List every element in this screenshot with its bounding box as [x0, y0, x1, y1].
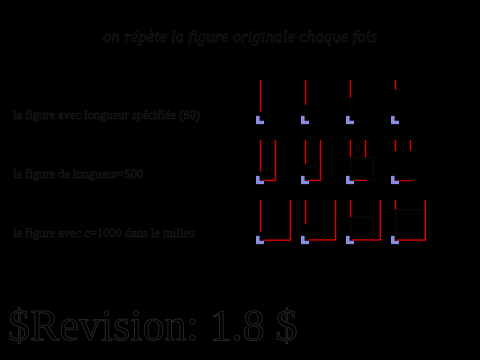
- turtle row2 col1: [256, 176, 264, 184]
- row2 ghost square col4: [396, 150, 426, 180]
- row3 col4 left line: [395, 200, 397, 209]
- row2 col2 left line: [305, 140, 307, 164]
- blue turtles: L-shaped icons (square missing its top-right quadrant): [256, 116, 399, 244]
- row1 col2 red line: [305, 80, 307, 105]
- row2 col4 left line: [395, 140, 397, 151]
- row3 ghost square col2: [306, 225, 321, 240]
- row3 col4 U path: [398, 200, 426, 240]
- turtle row1 col1: [256, 116, 264, 124]
- row2 col4 bottom line (dimmed, half covered): [398, 180, 412, 182]
- row2 col1 U path: [264, 140, 276, 180]
- turtle row1 col2: [301, 116, 309, 124]
- row3 ghost square col3: [351, 217, 373, 239]
- row3 col1 left line: [260, 200, 262, 232]
- row2 col2 U path: [309, 140, 321, 180]
- row1 ghost square col2: [306, 105, 321, 120]
- row2 col1 left line: [260, 140, 262, 172]
- row1 col1 red line: [260, 80, 262, 112]
- slide title: [0, 27, 480, 47]
- label row 3: [13, 226, 195, 241]
- turtle row3 col1: [256, 236, 264, 244]
- turtle row3 col3: [346, 236, 354, 244]
- row1 ghost square col3: [351, 98, 373, 120]
- row2 ghost square col1: [261, 172, 268, 179]
- row2 ghost square col3: [351, 157, 373, 179]
- turtle row2 col4: [391, 176, 399, 184]
- row1 ghost square col1: [261, 112, 268, 119]
- ghost squares (black squares, faint outline): [261, 90, 426, 240]
- row1 ghost square col4: [396, 90, 426, 120]
- row3 col1 U path: [264, 200, 291, 240]
- row2 ghost square col2: [306, 165, 321, 180]
- turtle row1 col3: [346, 116, 354, 124]
- row3 col2 U path: [309, 200, 336, 240]
- turtle row3 col2: [301, 236, 309, 244]
- row1 col4 red line: [395, 80, 397, 90]
- turtle row3 col4: [391, 236, 399, 244]
- turtle row1 col4: [391, 116, 399, 124]
- label row 1: [13, 108, 200, 123]
- turtle row2 col3: [346, 176, 354, 184]
- footer revision text: [8, 300, 298, 351]
- row2 col3 bottom line: [354, 179, 367, 181]
- row3 ghost square col1: [261, 233, 268, 240]
- row3 col3 U path: [353, 200, 381, 240]
- row2 col3 left line: [350, 140, 352, 157]
- row3 col3 left line: [350, 200, 352, 217]
- label row 2: [13, 167, 143, 182]
- row2 col3 right line (upper part): [365, 140, 367, 157]
- row3 col2 left line: [305, 200, 307, 225]
- row2 col4 right line (upper part): [410, 140, 412, 151]
- turtle row2 col2: [301, 176, 309, 184]
- row3 ghost square col4: [396, 210, 426, 240]
- row1 col3 red line: [350, 80, 352, 98]
